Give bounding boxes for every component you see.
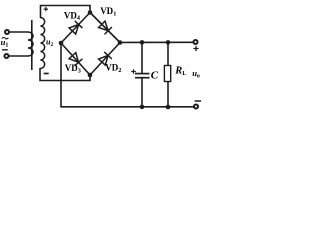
node top vertex junction xyxy=(88,10,93,15)
capacitor C bottom lead xyxy=(141,78,143,107)
label bar under u1 xyxy=(2,49,8,51)
resistor RL top lead xyxy=(167,43,169,66)
resistor RL body xyxy=(164,66,170,82)
diode VD3 xyxy=(69,53,82,66)
wire bridge edge left-top xyxy=(61,13,90,44)
wire bottom rail xyxy=(61,106,193,108)
transformer T primary winding xyxy=(28,32,33,56)
capacitor C top lead xyxy=(141,43,143,74)
diode VD1 xyxy=(99,21,112,34)
terminal input bottom xyxy=(4,54,8,58)
resistor RL bottom lead xyxy=(167,82,169,107)
wire bridge edge bottom-right xyxy=(90,43,120,76)
wire bridge left vertex down to bottom rail xyxy=(60,43,62,107)
capacitor C plates xyxy=(135,74,150,78)
label tilde above u1 xyxy=(2,37,9,38)
diode VD4 xyxy=(69,21,82,34)
terminal input top xyxy=(5,30,9,34)
svg-text:C: C xyxy=(151,69,159,81)
wire bridge edge top-right xyxy=(90,13,120,43)
node resistor top junction xyxy=(166,40,171,45)
node capacitor bottom junction xyxy=(140,105,145,110)
node bottom vertex junction xyxy=(88,73,93,78)
transformer core xyxy=(31,20,33,70)
wire top rail xyxy=(120,41,193,43)
label minus u2 xyxy=(44,73,49,75)
wire input bottom xyxy=(9,55,28,57)
node capacitor top junction xyxy=(140,40,145,45)
transformer T secondary winding xyxy=(40,18,44,69)
node right vertex junction xyxy=(118,40,123,45)
terminal output plus xyxy=(193,40,197,44)
wire secondary bottom to bridge bottom xyxy=(40,69,90,81)
label plus u2 xyxy=(44,7,48,11)
diode VD2 xyxy=(99,52,112,65)
label minus output xyxy=(195,100,201,102)
terminal output minus xyxy=(194,104,198,108)
wire input top xyxy=(10,31,28,33)
wire bridge edge left-bottom xyxy=(61,43,90,75)
node left vertex junction xyxy=(59,41,64,46)
wire top from secondary plus to bridge top xyxy=(41,6,91,18)
label plus capacitor xyxy=(131,69,136,74)
node resistor bottom junction xyxy=(166,105,171,110)
label plus output xyxy=(193,46,198,51)
